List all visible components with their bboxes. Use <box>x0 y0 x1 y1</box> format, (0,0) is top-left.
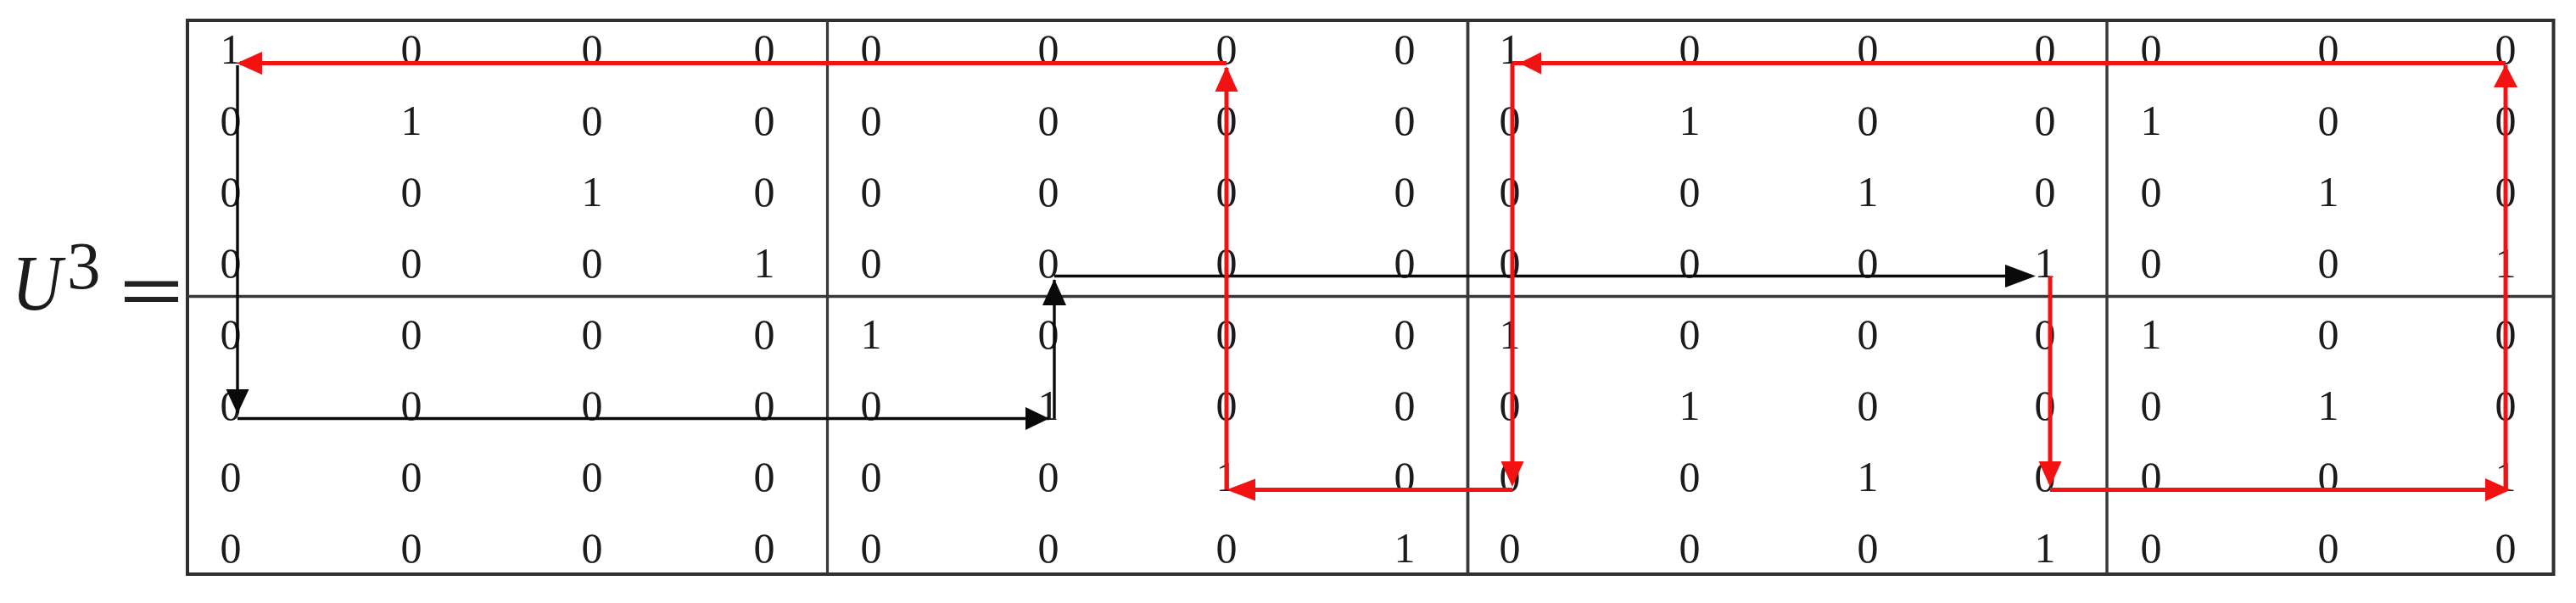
svg-text:1: 1 <box>2141 310 2162 358</box>
svg-text:0: 0 <box>401 239 422 287</box>
svg-text:1: 1 <box>401 97 422 144</box>
svg-text:0: 0 <box>1679 239 1701 287</box>
svg-text:0: 0 <box>1394 453 1416 500</box>
svg-text:0: 0 <box>2318 239 2339 287</box>
svg-text:0: 0 <box>861 25 882 73</box>
svg-text:0: 0 <box>861 239 882 287</box>
svg-text:0: 0 <box>401 382 422 429</box>
svg-text:0: 0 <box>2141 382 2162 429</box>
red arrowhead down at (7,9) <box>1501 461 1524 487</box>
svg-text:0: 0 <box>2035 25 2056 73</box>
svg-text:0: 0 <box>1038 239 1059 287</box>
svg-text:1: 1 <box>2318 168 2339 215</box>
red path segment: col12 down from (4,12) to (7,12) <box>2048 276 2053 483</box>
svg-text:1: 1 <box>1679 97 1701 144</box>
svg-text:0: 0 <box>2141 239 2162 287</box>
svg-text:0: 0 <box>1394 239 1416 287</box>
horizontal middle divider <box>187 295 2553 298</box>
svg-text:0: 0 <box>582 382 603 429</box>
svg-text:0: 0 <box>754 97 775 144</box>
svg-text:0: 0 <box>582 97 603 144</box>
svg-text:0: 0 <box>2035 168 2056 215</box>
svg-text:1: 1 <box>1858 453 1879 500</box>
svg-text:0: 0 <box>1394 25 1416 73</box>
svg-text:0: 0 <box>1679 453 1701 500</box>
svg-text:0: 0 <box>1500 97 1521 144</box>
svg-text:0: 0 <box>221 453 242 500</box>
red path segment: col9 down from (1,9) to (7,9) <box>1511 64 1515 483</box>
svg-text:0: 0 <box>1394 382 1416 429</box>
svg-text:0: 0 <box>1216 524 1238 572</box>
black arrowhead right at (4,12) <box>2005 265 2036 288</box>
svg-text:0: 0 <box>1394 310 1416 358</box>
svg-text:0: 0 <box>2318 25 2339 73</box>
svg-text:0: 0 <box>2318 310 2339 358</box>
svg-text:0: 0 <box>1038 524 1059 572</box>
svg-text:0: 0 <box>861 97 882 144</box>
red arrowhead left at (1,1) <box>237 52 262 75</box>
svg-text:0: 0 <box>582 239 603 287</box>
svg-text:0: 0 <box>2035 382 2056 429</box>
svg-text:3: 3 <box>67 230 101 304</box>
svg-text:0: 0 <box>1858 25 1879 73</box>
svg-text:0: 0 <box>754 25 775 73</box>
svg-text:0: 0 <box>754 453 775 500</box>
svg-text:0: 0 <box>582 25 603 73</box>
svg-text:1: 1 <box>1858 168 1879 215</box>
red path segment: row7 from col12 to col15 <box>2050 488 2506 492</box>
svg-text:0: 0 <box>221 524 242 572</box>
svg-text:0: 0 <box>1038 453 1059 500</box>
red arrowhead down at (7,12) <box>2039 461 2062 487</box>
svg-text:0: 0 <box>2318 453 2339 500</box>
red arrowhead up at (1,15) <box>2494 64 2517 87</box>
svg-text:1: 1 <box>2141 97 2162 144</box>
svg-text:1: 1 <box>582 168 603 215</box>
svg-text:1: 1 <box>2035 239 2056 287</box>
svg-text:0: 0 <box>2035 97 2056 144</box>
svg-text:0: 0 <box>582 453 603 500</box>
svg-text:0: 0 <box>1679 310 1701 358</box>
svg-text:0: 0 <box>1858 310 1879 358</box>
svg-text:1: 1 <box>861 310 882 358</box>
vertical divider 3 <box>2105 20 2108 574</box>
red path segment: col7 up from (7,7) to (1,7) <box>1225 68 1229 490</box>
svg-text:0: 0 <box>1394 97 1416 144</box>
svg-text:1: 1 <box>2318 382 2339 429</box>
svg-text:1: 1 <box>754 239 775 287</box>
svg-text:0: 0 <box>861 382 882 429</box>
svg-text:0: 0 <box>861 453 882 500</box>
svg-text:0: 0 <box>1500 382 1521 429</box>
svg-text:0: 0 <box>1394 168 1416 215</box>
svg-text:0: 0 <box>754 310 775 358</box>
svg-text:0: 0 <box>2035 310 2056 358</box>
label U^3 = <box>12 230 178 327</box>
svg-text:0: 0 <box>1858 524 1879 572</box>
svg-text:0: 0 <box>2141 25 2162 73</box>
svg-text:0: 0 <box>861 524 882 572</box>
svg-text:0: 0 <box>2141 524 2162 572</box>
svg-text:0: 0 <box>401 25 422 73</box>
svg-text:0: 0 <box>754 168 775 215</box>
red arrowhead right at (7,15) <box>2485 478 2511 501</box>
red arrowhead left at (1,9) <box>1519 53 1541 75</box>
svg-text:0: 0 <box>1500 239 1521 287</box>
svg-text:0: 0 <box>401 310 422 358</box>
svg-text:0: 0 <box>1858 239 1879 287</box>
svg-text:0: 0 <box>2495 524 2517 572</box>
svg-text:0: 0 <box>1858 97 1879 144</box>
svg-text:0: 0 <box>754 382 775 429</box>
svg-text:0: 0 <box>1500 168 1521 215</box>
svg-text:1: 1 <box>1679 382 1701 429</box>
black path segment: (1,1) down to (6,1) <box>236 65 238 413</box>
svg-text:0: 0 <box>1038 310 1059 358</box>
black arrowhead up at (4,6) <box>1042 279 1066 305</box>
svg-text:0: 0 <box>1679 524 1701 572</box>
svg-text:0: 0 <box>1216 25 1238 73</box>
svg-text:0: 0 <box>1679 168 1701 215</box>
svg-text:0: 0 <box>1038 25 1059 73</box>
svg-text:1: 1 <box>1500 25 1521 73</box>
red path segment: col15 up from (7,15) to (1,15) <box>2504 65 2508 490</box>
black arrowhead right at (6,6) <box>1025 407 1049 430</box>
red arrowhead up at (1,7) <box>1215 66 1238 92</box>
svg-text:0: 0 <box>1500 524 1521 572</box>
red path segment: row1 from col7 to col1 <box>240 61 1227 65</box>
black path segment: col6 up from (6,6) to row4 line <box>1053 280 1055 419</box>
svg-text:0: 0 <box>401 453 422 500</box>
svg-text:1: 1 <box>2035 524 2056 572</box>
vertical divider 2 <box>1467 20 1470 574</box>
svg-text:0: 0 <box>2318 97 2339 144</box>
svg-text:0: 0 <box>1858 382 1879 429</box>
black path segment: row 6 from col1 to col6 <box>237 417 1049 420</box>
svg-text:0: 0 <box>754 524 775 572</box>
vertical divider 1 <box>826 20 829 574</box>
svg-text:0: 0 <box>401 524 422 572</box>
svg-text:1: 1 <box>1394 524 1416 572</box>
svg-text:0: 0 <box>861 168 882 215</box>
black path segment: row4 line from col6 to (4,12) <box>1054 275 2029 277</box>
svg-text:0: 0 <box>1038 168 1059 215</box>
svg-text:0: 0 <box>2141 453 2162 500</box>
svg-text:0: 0 <box>582 310 603 358</box>
svg-text:1: 1 <box>1500 310 1521 358</box>
black arrowhead down at (6,1) <box>226 389 249 414</box>
red path segment: row7 from col9 to col7 <box>1232 488 1512 492</box>
svg-text:0: 0 <box>1679 25 1701 73</box>
svg-text:0: 0 <box>582 524 603 572</box>
svg-text:0: 0 <box>2318 524 2339 572</box>
svg-text:0: 0 <box>2141 168 2162 215</box>
svg-text:0: 0 <box>401 168 422 215</box>
svg-text:0: 0 <box>1038 97 1059 144</box>
red arrowhead left at (7,7) <box>1227 479 1255 501</box>
red path segment: row1 from col15 to col9 <box>1512 61 2506 65</box>
svg-text:U: U <box>12 239 66 327</box>
